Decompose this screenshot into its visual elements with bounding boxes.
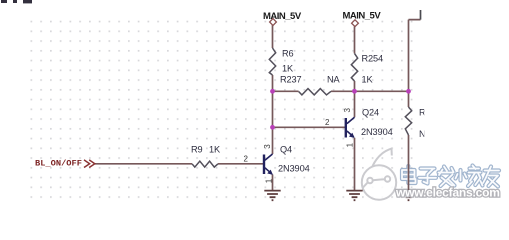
svg-text:R9: R9: [191, 145, 203, 155]
svg-text:3: 3: [263, 144, 272, 149]
svg-text:1K: 1K: [362, 74, 374, 84]
svg-text:R254: R254: [362, 53, 384, 63]
svg-text:1K: 1K: [209, 145, 221, 155]
svg-text:R6: R6: [282, 49, 294, 59]
svg-text:Q4: Q4: [280, 145, 292, 155]
svg-text:R237: R237: [280, 74, 302, 84]
svg-text:Q24: Q24: [362, 107, 379, 117]
svg-text:www.elecfans.com: www.elecfans.com: [395, 186, 500, 200]
svg-text:MAIN_5V: MAIN_5V: [343, 11, 382, 22]
svg-text:MAIN_5V: MAIN_5V: [263, 11, 302, 22]
svg-text:BL_ON/OFF: BL_ON/OFF: [35, 159, 82, 169]
svg-text:2N3904: 2N3904: [278, 164, 310, 174]
svg-text:2: 2: [244, 155, 249, 164]
svg-text:1K: 1K: [282, 63, 294, 73]
svg-text:1: 1: [264, 178, 273, 183]
svg-text:3: 3: [343, 108, 352, 113]
svg-text:1: 1: [346, 142, 355, 147]
svg-text:2: 2: [325, 118, 330, 127]
svg-text:NA: NA: [327, 74, 341, 84]
svg-text:2N3904: 2N3904: [361, 127, 393, 137]
